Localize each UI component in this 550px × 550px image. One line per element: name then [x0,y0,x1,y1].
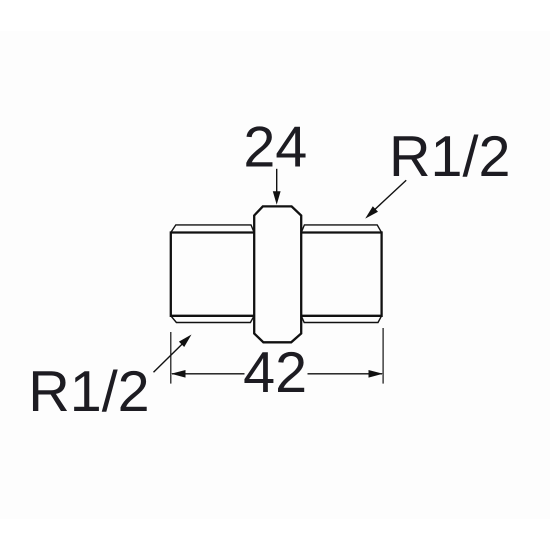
left thread crest line bottom [171,316,254,323]
leader arrow for 24 [273,169,281,205]
right threaded section outline [301,233,381,316]
nipple hex center section outline [254,206,301,342]
dimension line 42 right segment [308,373,383,375]
left thread crest line top [171,225,254,233]
extension line right for dimension 42 [382,328,384,384]
svg-text:R1/2: R1/2 [389,125,510,189]
extension line left for dimension 42 [170,332,172,384]
svg-text:42: 42 [243,341,307,405]
leader arrow for R1/2 bottom left [154,335,192,373]
dimension line 42 left segment [172,373,245,375]
svg-text:24: 24 [243,116,307,180]
left threaded section outline [171,233,254,316]
leader arrow for R1/2 top right [365,180,406,218]
dimension arrowhead right [369,370,384,378]
right thread crest line bottom [301,316,381,323]
svg-text:R1/2: R1/2 [28,360,149,424]
dimension arrowhead left [171,370,186,378]
right thread crest line top [301,225,381,233]
